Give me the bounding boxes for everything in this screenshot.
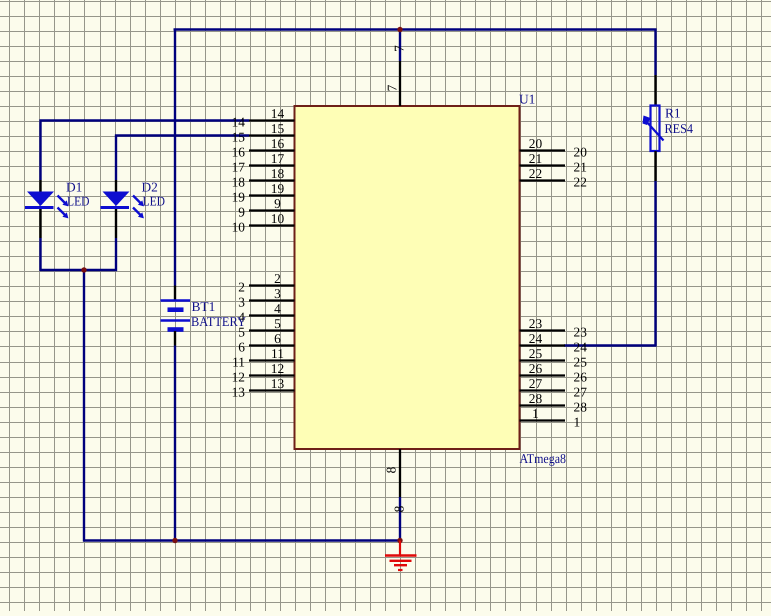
pin 9 line [249,209,295,211]
D1 light arrow 2 [58,208,66,216]
R1 body rectangle [651,106,660,152]
pin 7 line [399,61,401,106]
pin 25 line [520,359,566,361]
pin 1 line [520,419,566,421]
pin 26 line [520,374,566,376]
svg-text:LED: LED [67,194,90,209]
BT1 plate short bottom [168,327,184,332]
pin 3 line [249,299,295,301]
svg-text:2: 2 [274,271,281,286]
D1 cathode bar [25,206,54,209]
svg-text:27: 27 [574,385,588,400]
pin 10 line [249,224,295,226]
svg-text:13: 13 [271,376,285,391]
pin 24 line [520,344,566,346]
D2 triangle [103,192,130,207]
wire D2 cathode vertical [115,238,117,271]
svg-text:20: 20 [529,136,543,151]
svg-text:D1: D1 [66,180,82,195]
svg-text:11: 11 [232,355,245,370]
svg-text:6: 6 [238,340,245,355]
svg-text:D2: D2 [142,180,158,195]
resistor R1 RES4 [643,75,664,181]
wire R1 to pin24 horizontal [564,344,657,346]
svg-text:20: 20 [574,145,588,160]
R1 top pin [654,75,656,105]
svg-text:17: 17 [232,160,246,175]
svg-text:1: 1 [532,406,539,421]
wire pin8 to ground bus [399,497,401,541]
svg-text:21: 21 [574,160,587,175]
wire VCC top horizontal [174,28,657,30]
svg-text:11: 11 [271,346,284,361]
svg-text:19: 19 [232,190,246,205]
D1 triangle [27,192,54,207]
svg-text:7: 7 [385,84,400,91]
wire battery bottom vertical [174,346,176,541]
pin 11 line [249,359,295,361]
BT1 plate short top [168,307,184,312]
svg-text:16: 16 [232,145,246,160]
pin 16 line [249,149,295,151]
wire pin15 horizontal [115,134,249,136]
svg-text:24: 24 [529,331,543,346]
D2 cathode pin [115,209,117,238]
wire D1 anode vertical [39,120,41,181]
svg-text:16: 16 [271,136,285,151]
BT1 plate long bottom [161,319,191,322]
pin 8 line [399,449,401,497]
svg-text:15: 15 [271,121,285,136]
pin 2 line [249,284,295,286]
svg-text:10: 10 [271,211,285,226]
R1 diagonal stroke [646,121,664,141]
svg-text:25: 25 [574,355,588,370]
svg-text:LED: LED [143,194,166,209]
svg-text:7: 7 [392,45,407,52]
svg-text:ATmega8: ATmega8 [520,451,567,466]
svg-text:8: 8 [384,466,399,473]
pin 12 line [249,374,295,376]
svg-text:5: 5 [274,316,281,331]
svg-text:26: 26 [529,361,543,376]
svg-text:25: 25 [529,346,543,361]
svg-text:RES4: RES4 [665,121,694,136]
D2 light arrow 1 [133,196,141,204]
svg-text:24: 24 [574,340,588,355]
svg-text:1: 1 [574,415,581,430]
svg-text:8: 8 [392,505,407,512]
wire left vertical drop [83,269,85,542]
svg-text:2: 2 [238,280,245,295]
D2 cathode bar [101,206,130,209]
pin 18 line [249,179,295,181]
svg-text:R1: R1 [665,106,681,121]
svg-text:9: 9 [238,205,245,220]
pin 21 line [520,164,566,166]
pin 19 line [249,194,295,196]
pin 15 line [249,134,295,136]
svg-text:U1: U1 [519,92,535,107]
svg-text:18: 18 [232,175,246,190]
wire battery top vertical [174,29,176,286]
svg-text:10: 10 [232,220,246,235]
wire ground bus bottom horizontal [83,539,401,541]
svg-text:3: 3 [238,295,245,310]
svg-text:3: 3 [274,286,281,301]
pin 23 line [520,329,566,331]
D1 anode pin [39,180,41,192]
D2 light arrow 2 [133,208,141,216]
svg-text:23: 23 [529,316,543,331]
LED D2 [101,180,144,238]
junction pin8/ground [397,538,402,543]
svg-text:14: 14 [232,115,246,130]
wire pin14 horizontal [40,119,250,121]
svg-text:12: 12 [232,370,245,385]
svg-text:28: 28 [529,391,543,406]
svg-text:4: 4 [274,301,281,316]
ground [385,541,417,571]
R1 adjust head [643,116,651,126]
D2 anode pin [115,180,117,192]
svg-text:22: 22 [529,166,542,181]
svg-text:14: 14 [271,106,285,121]
D1 light arrow 1 [58,196,66,204]
wire R1 bottom vertical [654,181,656,347]
svg-text:12: 12 [271,361,284,376]
pin 20 line [520,149,566,151]
wire D1 cathode vertical [39,238,41,271]
pin 5 line [249,329,295,331]
pin 6 line [249,344,295,346]
svg-text:22: 22 [574,175,587,190]
wire pin7 vertical [399,30,401,62]
pin 4 line [249,314,295,316]
svg-text:6: 6 [274,331,281,346]
svg-text:BT1: BT1 [192,299,216,314]
junction VCC/pin7 [397,27,402,32]
IC U1 ATmega8 body [295,106,520,449]
svg-text:28: 28 [574,400,588,415]
svg-text:13: 13 [232,385,246,400]
BT1 plate long top [161,299,191,302]
R1 bottom pin [654,151,656,181]
D1 cathode pin [39,209,41,238]
junction battery/ground bus [172,538,177,543]
svg-text:15: 15 [232,130,246,145]
pin 28 line [520,404,566,406]
svg-text:9: 9 [274,196,281,211]
svg-text:19: 19 [271,181,285,196]
wire LED cathode bus horizontal [40,269,118,271]
svg-text:23: 23 [574,325,588,340]
wire D2 anode vertical [115,135,117,181]
BT1 top pin [174,286,176,301]
LED D1 [25,180,68,238]
svg-text:26: 26 [574,370,588,385]
pin 14 line [249,119,295,121]
wire R1 top vertical [654,29,656,76]
svg-text:21: 21 [529,151,542,166]
svg-text:18: 18 [271,166,285,181]
pin 27 line [520,389,566,391]
BT1 bottom pin [174,331,176,346]
pin 17 line [249,164,295,166]
junction LED bus [81,267,86,272]
pin 22 line [520,179,566,181]
svg-text:17: 17 [271,151,285,166]
svg-text:BATTERY: BATTERY [191,314,246,329]
svg-text:27: 27 [529,376,543,391]
pin 13 line [249,389,295,391]
battery BT1 [161,286,191,346]
